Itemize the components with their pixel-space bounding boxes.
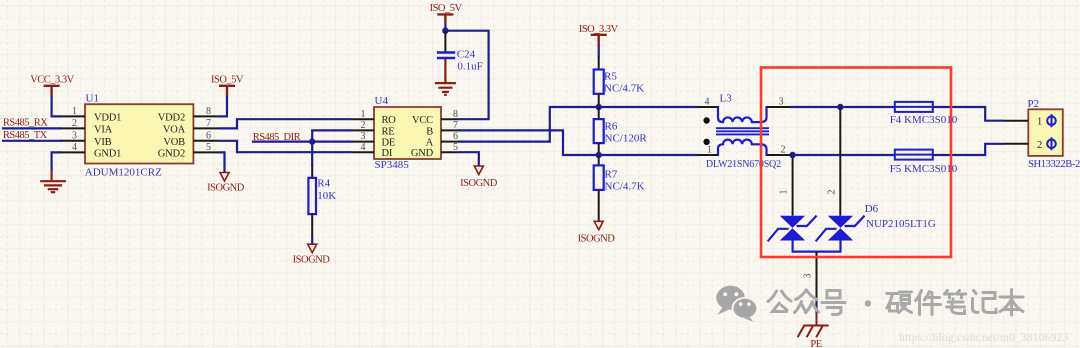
junction ISO_5V / C24 <box>442 28 448 34</box>
svg-text:5: 5 <box>206 142 211 153</box>
watermark middot <box>865 300 871 306</box>
junction net B / D6 pin1 <box>789 152 795 158</box>
L3 bottom winding <box>718 140 767 155</box>
svg-text:VDD2: VDD2 <box>158 112 185 123</box>
svg-text:DE: DE <box>382 138 396 149</box>
svg-text:D6: D6 <box>865 203 879 215</box>
IC U4 SP3485 body <box>374 107 441 159</box>
svg-text:1: 1 <box>72 106 77 117</box>
svg-text:U4: U4 <box>375 95 389 107</box>
svg-text:C24: C24 <box>457 49 476 61</box>
P2 pin 2 <box>1004 143 1028 145</box>
wire U1 pin6 to U4 pin4 <box>219 141 353 152</box>
wire U1 pin8 to ISO_5V <box>219 97 228 117</box>
svg-text:R5: R5 <box>604 71 617 83</box>
wire D6 pin3 to PE <box>815 299 817 314</box>
wire U4 pin5 to ISOGND <box>458 152 479 166</box>
wire net B row to L3 pin1 <box>599 154 698 156</box>
wire VCC_3.3V to U1 pin1 <box>52 97 61 117</box>
svg-text:ISO_3.3V: ISO_3.3V <box>579 24 619 35</box>
svg-text:F5 KMC3S010: F5 KMC3S010 <box>890 163 958 175</box>
svg-text:GND1: GND1 <box>94 148 121 159</box>
svg-text:2: 2 <box>827 190 838 195</box>
R7 pin to ISOGND <box>598 190 600 222</box>
TVS diode D6 element A <box>780 216 805 241</box>
svg-text:RS485_TX: RS485_TX <box>3 130 48 141</box>
svg-text:VCC: VCC <box>412 115 433 126</box>
svg-text:VIB: VIB <box>94 137 112 148</box>
硬 <box>887 292 898 295</box>
fuse F4 <box>895 102 933 112</box>
C24 pin to ground <box>444 59 446 78</box>
svg-text:3: 3 <box>361 131 366 142</box>
U1 pin 6 <box>193 140 218 142</box>
op-amp U1 ADUM1201CRZ body <box>85 104 193 163</box>
wire F5 to P2 pin2 <box>933 144 1004 155</box>
本 <box>1010 290 1013 316</box>
wire RS485_TX <box>2 140 61 142</box>
svg-text:2: 2 <box>1037 140 1042 151</box>
svg-text:B: B <box>426 126 433 137</box>
power port ISO_5V above C24 <box>437 14 453 23</box>
ground GND under C24 <box>435 77 456 95</box>
svg-text:3: 3 <box>779 97 784 108</box>
svg-text:5: 5 <box>453 142 458 153</box>
watermark wechat icon <box>716 286 757 322</box>
U4 pin 7 <box>441 129 458 131</box>
L3 core <box>716 128 769 134</box>
svg-text:ISO_5V: ISO_5V <box>211 75 244 86</box>
P2 pin 1 <box>1004 120 1028 122</box>
wire RS485_DIR riser to U4 pin2 <box>312 130 352 141</box>
svg-text:8: 8 <box>453 109 458 120</box>
svg-text:SP3485: SP3485 <box>375 159 410 171</box>
wire U4 pin6 to net A <box>458 107 599 142</box>
ground ISOGND under U1 <box>220 173 229 182</box>
U4 pin 1 <box>353 118 375 120</box>
svg-text:DI: DI <box>382 148 393 159</box>
svg-text:NC/4.7K: NC/4.7K <box>604 83 644 95</box>
junction net A at R5/R6 <box>596 104 602 110</box>
svg-text:4: 4 <box>72 142 77 153</box>
记 <box>974 291 977 294</box>
svg-text:2: 2 <box>72 118 77 129</box>
号 <box>827 291 840 299</box>
U4 pin 4 <box>353 151 375 153</box>
wire L3 pin2 to F5 <box>790 154 896 156</box>
svg-text:L3: L3 <box>720 93 733 105</box>
公 <box>768 291 777 302</box>
svg-text:RO: RO <box>382 115 397 126</box>
svg-text:RE: RE <box>382 126 395 137</box>
svg-text:DLW21SN670SQ2: DLW21SN670SQ2 <box>706 159 781 170</box>
wire F4 to P2 pin1 <box>933 107 1004 121</box>
svg-text:NC/120R: NC/120R <box>605 133 648 145</box>
svg-text:0.1uF: 0.1uF <box>457 61 482 73</box>
wire RS485_RX <box>2 127 61 129</box>
svg-text:3: 3 <box>72 130 77 141</box>
fuse F5 <box>895 150 933 160</box>
wire ISO_3.3V to R5 <box>598 46 600 58</box>
junction RS485_DIR / R4 <box>309 138 315 144</box>
svg-text:A: A <box>426 138 434 149</box>
svg-text:2: 2 <box>361 120 366 131</box>
svg-text:ADUM1201CRZ: ADUM1201CRZ <box>85 167 162 179</box>
resistor R7 <box>598 155 600 165</box>
L3 polarity dots <box>703 117 709 123</box>
TVS diode D6 element B <box>828 216 853 241</box>
connector P2 body <box>1028 109 1063 156</box>
svg-text:R7: R7 <box>605 169 618 181</box>
ground ISOGND under R4 <box>308 244 317 253</box>
件 <box>916 291 922 301</box>
svg-text:10K: 10K <box>317 190 336 202</box>
svg-text:VOB: VOB <box>163 137 185 148</box>
U4 pin 5 <box>441 151 458 153</box>
svg-text:NC/4.7K: NC/4.7K <box>605 181 645 193</box>
red highlight box <box>761 68 951 258</box>
svg-text:P2: P2 <box>1028 98 1040 110</box>
svg-text:VCC_3.3V: VCC_3.3V <box>30 75 74 86</box>
L3 top winding <box>718 107 767 122</box>
svg-text:7: 7 <box>206 118 211 129</box>
svg-text:3: 3 <box>803 274 814 279</box>
capacitor C24 <box>444 31 446 52</box>
L3 pin 1 <box>698 154 720 156</box>
power port ISO_3.3V <box>591 35 607 47</box>
L3 pin 4 <box>698 106 720 108</box>
svg-text:8: 8 <box>206 106 211 117</box>
svg-text:SH13322B-2: SH13322B-2 <box>1028 159 1080 170</box>
U1 pin 8 <box>193 115 218 117</box>
svg-text:ISOGND: ISOGND <box>207 183 245 194</box>
wire U1 pin4 to ground <box>52 152 61 171</box>
svg-text:NUP2105LT1G: NUP2105LT1G <box>866 218 936 230</box>
ground PE <box>798 313 829 337</box>
svg-text:1: 1 <box>779 190 790 195</box>
svg-text:6: 6 <box>206 130 211 141</box>
svg-text:7: 7 <box>453 120 458 131</box>
U4 pin 6 <box>441 141 458 143</box>
svg-text:2: 2 <box>781 145 786 156</box>
svg-text:ISOGND: ISOGND <box>293 255 331 266</box>
svg-text:1: 1 <box>361 109 366 120</box>
svg-text:https://blog.csdn.net/m0_38106: https://blog.csdn.net/m0_38106923 <box>899 332 1069 344</box>
svg-text:6: 6 <box>453 131 458 142</box>
笔 <box>945 291 948 295</box>
svg-text:1: 1 <box>707 145 712 156</box>
svg-text:VOA: VOA <box>163 124 186 135</box>
ground ISOGND under U4 <box>474 166 483 175</box>
U1 pin 7 <box>193 127 218 129</box>
diode D6 pin2 riser <box>839 107 841 216</box>
U1 pin 1 <box>60 115 85 117</box>
ground ISOGND under R7 <box>594 221 603 230</box>
svg-text:ISO_5V: ISO_5V <box>430 3 463 14</box>
ground GND under U1 <box>40 170 66 192</box>
U4 pin 3 <box>353 141 375 143</box>
svg-text:VIA: VIA <box>94 124 113 135</box>
watermark text 公众号·硬件笔记本 (drawn strokes) <box>768 290 845 315</box>
junction net B at R6/R7 <box>596 152 602 158</box>
svg-text:F4 KMC3S010: F4 KMC3S010 <box>890 114 958 126</box>
L3 pin 2 <box>766 154 790 156</box>
svg-text:VDD1: VDD1 <box>94 112 121 123</box>
U4 pin 2 <box>353 129 375 131</box>
U1 pin 3 <box>60 140 85 142</box>
众 <box>796 290 807 300</box>
junction net A / D6 pin2 <box>837 104 843 110</box>
U1 pin 2 <box>60 127 85 129</box>
wire ISO_5V junction to U4 pin8 <box>445 23 488 119</box>
wire RS485_DIR down to R4 <box>311 142 313 166</box>
wire L3 pin3 to F4 <box>790 106 896 108</box>
svg-text:GND2: GND2 <box>158 148 185 159</box>
svg-text:R6: R6 <box>605 121 618 133</box>
diode D6 pin1 riser <box>792 155 794 216</box>
svg-text:ISOGND: ISOGND <box>578 234 616 245</box>
power port VCC_3.3V <box>44 86 60 97</box>
R4 pin to ISOGND <box>311 214 313 237</box>
svg-text:RS485_RX: RS485_RX <box>3 118 48 129</box>
U4 pin 8 <box>441 118 458 120</box>
wire net A row to L3 pin4 <box>599 106 698 108</box>
svg-text:PE: PE <box>810 339 821 348</box>
resistor R5 <box>598 57 600 70</box>
wire RS485_DIR <box>252 141 353 143</box>
resistor R6 <box>598 107 600 119</box>
svg-text:GND: GND <box>411 148 434 159</box>
svg-text:ISOGND: ISOGND <box>460 178 498 189</box>
L3 pin 3 <box>766 106 790 108</box>
svg-text:4: 4 <box>705 97 710 108</box>
svg-text:U1: U1 <box>86 93 99 105</box>
diode D6 pin3 <box>816 252 818 300</box>
svg-text:R4: R4 <box>317 177 330 189</box>
svg-text:1: 1 <box>1037 117 1042 128</box>
U1 pin 4 <box>60 151 85 153</box>
wire U1 pin7 to U4 pin1 <box>219 119 353 128</box>
U1 pin 5 <box>193 151 218 153</box>
wire D6 bottom bus <box>793 240 841 252</box>
resistor R4 <box>311 165 313 178</box>
wire U4 pin7 to net B <box>458 130 599 155</box>
wire U1 pin5 to ISOGND <box>219 152 225 172</box>
svg-text:4: 4 <box>361 142 366 153</box>
power port ISO_5V above U1 <box>219 86 235 97</box>
